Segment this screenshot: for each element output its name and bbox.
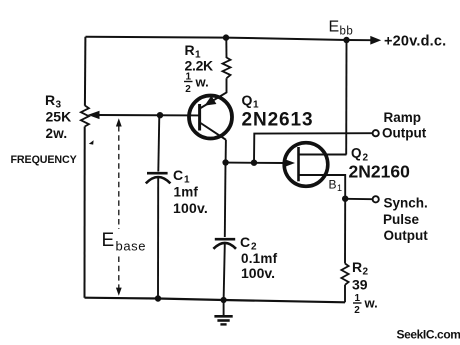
svg-text:SeekIC.com: SeekIC.com: [397, 328, 460, 342]
svg-text:Q: Q: [242, 92, 253, 108]
svg-text:FREQUENCY: FREQUENCY: [11, 154, 77, 166]
svg-text:w.: w.: [364, 296, 378, 311]
svg-text:100v.: 100v.: [173, 200, 208, 216]
svg-text:bb: bb: [340, 26, 354, 38]
resistor R1: [223, 58, 231, 79]
wire B1 of Q2: [299, 175, 345, 199]
label +20vdc: [384, 34, 446, 50]
node synch junction: [342, 196, 348, 202]
label B1: [329, 178, 343, 194]
resistor R3 (potentiometer): [81, 106, 89, 127]
svg-text:Output: Output: [384, 228, 429, 243]
node R1 top junction: [223, 34, 229, 40]
svg-text:2N2613: 2N2613: [242, 110, 314, 131]
label R2: [352, 259, 369, 293]
capacitor C1: [146, 173, 171, 183]
wire emitter of Q2: [226, 162, 284, 164]
label E: [102, 230, 147, 254]
svg-text:C: C: [173, 167, 183, 183]
resistor R2: [341, 264, 348, 285]
terminal synch output circle: [373, 196, 379, 202]
svg-text:R: R: [185, 42, 195, 58]
svg-text:w.: w.: [195, 75, 209, 90]
svg-text:100v.: 100v.: [241, 265, 275, 281]
label Ebb: [329, 19, 354, 38]
watermark SeekIC.com: [397, 328, 460, 342]
wire R1 upper lead: [225, 38, 227, 58]
node ground junction: [221, 297, 227, 303]
wire left rail lower: [84, 127, 86, 298]
svg-text:1mf: 1mf: [174, 185, 199, 200]
node C1 tap junction: [157, 112, 163, 118]
measurement arrow E_base (dashed): [116, 118, 122, 295]
ground: [214, 300, 232, 324]
svg-text:1: 1: [337, 183, 342, 193]
wire Q1 collector down: [225, 140, 227, 163]
svg-text:E: E: [102, 230, 115, 251]
Q1 emitter arrowhead: [205, 96, 217, 106]
node Q1 collector junction: [222, 159, 228, 165]
wire right rail from Ebb: [345, 40, 347, 155]
label Synch Pulse Output: [383, 196, 428, 244]
label half watt R1: [184, 72, 209, 96]
label R3: [45, 92, 71, 141]
svg-text:+20v.d.c.: +20v.d.c.: [384, 34, 446, 50]
svg-text:B: B: [329, 178, 337, 192]
wire C1 lower lead: [157, 178, 159, 299]
wire ramp output: [254, 133, 372, 163]
wire R2 lower lead: [344, 285, 346, 303]
svg-text:39: 39: [352, 277, 368, 293]
transistor Q1: [189, 96, 232, 140]
svg-text:2: 2: [185, 84, 191, 95]
svg-text:2: 2: [354, 305, 360, 316]
wire bottom rail: [85, 298, 346, 303]
node ramp tee junction: [251, 160, 257, 166]
terminal ramp output circle: [373, 130, 379, 136]
label C1: [173, 167, 208, 216]
label C2: [240, 234, 278, 281]
svg-text:2w.: 2w.: [46, 126, 68, 141]
svg-text:2N2160: 2N2160: [349, 162, 411, 182]
wire B2 of Q2 to rail: [299, 154, 347, 156]
svg-text:E: E: [329, 19, 340, 36]
label Q1: [242, 92, 314, 131]
svg-text:Q: Q: [351, 146, 362, 161]
svg-text:0.1mf: 0.1mf: [241, 251, 278, 266]
svg-text:C: C: [240, 234, 250, 250]
node Ebb junction: [343, 37, 349, 43]
svg-text:Output: Output: [382, 126, 427, 141]
svg-text:Ramp: Ramp: [384, 110, 422, 125]
Q2 emitter arrowhead: [283, 159, 295, 168]
wire C2 lower lead: [224, 244, 225, 301]
wire top rail: [86, 37, 347, 40]
arrow to +20vdc: [347, 36, 382, 45]
svg-text:R: R: [45, 92, 55, 108]
label FREQUENCY: [11, 154, 77, 166]
label Q2: [349, 146, 411, 182]
wire C1 upper lead: [158, 115, 159, 171]
wire R1 lower lead / Q1 emitter: [200, 78, 227, 108]
svg-text:R: R: [352, 259, 362, 275]
svg-text:Synch.: Synch.: [384, 196, 428, 211]
label Ramp Output: [382, 110, 427, 141]
transistor Q2: [284, 143, 328, 187]
wire R2 upper lead: [344, 199, 346, 264]
wire left rail upper: [84, 37, 87, 106]
label R1: [185, 42, 214, 74]
tick mark below wiper: [89, 140, 94, 144]
node C1 bottom junction: [155, 295, 161, 301]
wiper arrow of R3: [88, 111, 200, 119]
svg-text:Pulse: Pulse: [383, 212, 420, 227]
capacitor C2: [213, 239, 236, 249]
wire synch output: [345, 198, 372, 200]
svg-text:25K: 25K: [46, 109, 72, 125]
label half watt R2: [353, 293, 378, 316]
wire C2 upper lead: [224, 163, 227, 237]
svg-text:base: base: [116, 239, 147, 254]
